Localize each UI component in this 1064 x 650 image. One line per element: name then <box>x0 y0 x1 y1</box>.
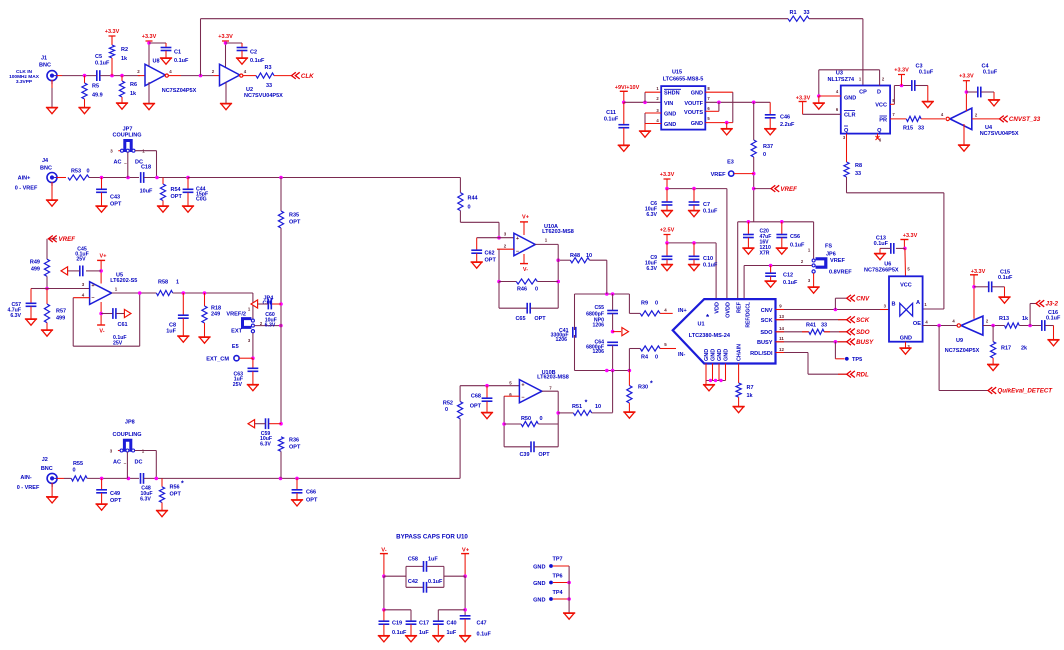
svg-text:C61: C61 <box>118 322 128 328</box>
svg-text:OPT: OPT <box>110 202 122 208</box>
ground at U15 pin5 <box>721 129 733 135</box>
svg-text:TP5: TP5 <box>852 357 862 363</box>
svg-text:GND: GND <box>691 121 703 127</box>
no-connect X at U3 Q <box>876 134 880 140</box>
svg-text:R36: R36 <box>289 437 299 443</box>
resistor R48 10 <box>570 253 592 263</box>
resistor R55 0 <box>64 461 87 481</box>
svg-text:OPT: OPT <box>470 404 482 410</box>
svg-text:OPT: OPT <box>289 444 301 450</box>
ground at C44 <box>182 206 194 212</box>
jumper JP8 COUPLING <box>110 420 157 479</box>
svg-text:C43: C43 <box>110 195 120 201</box>
svg-text:CNV: CNV <box>856 295 870 302</box>
svg-text:2.2uF: 2.2uF <box>780 122 795 128</box>
svg-text:C49: C49 <box>110 491 120 497</box>
svg-text:C62: C62 <box>485 251 495 257</box>
svg-text:6.3V: 6.3V <box>646 266 657 272</box>
ground at C8 <box>177 336 189 342</box>
svg-text:VREF: VREF <box>59 236 76 243</box>
resistor R7 1k <box>736 383 754 399</box>
svg-text:25V: 25V <box>233 382 243 388</box>
svg-text:VCC: VCC <box>875 103 887 109</box>
wire VIN rail <box>624 92 661 104</box>
svg-text:C56: C56 <box>790 234 800 240</box>
svg-text:C12: C12 <box>783 273 793 279</box>
svg-text:GND: GND <box>844 95 856 101</box>
svg-text:NC7SVU04P5X: NC7SVU04P5X <box>980 131 1019 137</box>
svg-text:U3: U3 <box>836 71 843 77</box>
svg-text:Q: Q <box>877 128 882 134</box>
svg-text:R7: R7 <box>747 385 754 391</box>
ground at C7 <box>688 211 700 217</box>
wire VREF cap rail <box>738 220 814 299</box>
inverter U8 NC7SZ04P5X <box>137 59 196 95</box>
svg-text:+2.5V: +2.5V <box>660 228 675 234</box>
svg-text:C10: C10 <box>703 256 713 262</box>
net label QuikEval_DETECT <box>988 387 1053 395</box>
svg-text:0: 0 <box>468 205 471 211</box>
svg-text:0: 0 <box>763 152 766 158</box>
svg-text:SCK: SCK <box>856 317 870 324</box>
wire network bottom rail <box>575 369 632 373</box>
resistor R49 499 <box>30 239 50 291</box>
svg-text:13: 13 <box>779 314 784 319</box>
svg-text:R51: R51 <box>572 404 582 410</box>
svg-text:REF/DGCL: REF/DGCL <box>746 302 752 328</box>
svg-text:AC: AC <box>113 460 121 466</box>
svg-text:249: 249 <box>211 312 220 318</box>
wire U10A -in <box>497 249 514 283</box>
svg-text:NC7SVU04P5X: NC7SVU04P5X <box>244 93 283 99</box>
svg-text:FS: FS <box>825 244 832 250</box>
wire CM rail middle <box>279 228 283 426</box>
svg-text:U8: U8 <box>152 59 159 65</box>
ground at C12 <box>765 281 777 287</box>
svg-text:OPT: OPT <box>171 194 183 200</box>
wire U1 GND pins <box>706 364 726 385</box>
turret E5 EXT_CM <box>206 344 253 363</box>
capacitor C44 15pF <box>183 178 209 207</box>
svg-text:1k: 1k <box>1022 316 1029 322</box>
svg-text:REF: REF <box>737 301 743 313</box>
svg-text:+3.3V: +3.3V <box>894 68 909 74</box>
svg-text:V+: V+ <box>100 254 107 260</box>
svg-text:R4: R4 <box>641 354 649 360</box>
wire U3 D feedback loop <box>817 70 880 98</box>
capacitor C66 OPT <box>292 478 318 503</box>
capacitor C4 0.1uF <box>966 64 997 100</box>
wire network top rail <box>575 292 630 296</box>
svg-text:R50: R50 <box>521 416 531 422</box>
svg-text:IN+: IN+ <box>678 308 687 314</box>
svg-text:−: − <box>521 395 524 401</box>
svg-text:+3.3V: +3.3V <box>105 29 120 35</box>
svg-text:C46: C46 <box>780 115 790 121</box>
svg-text:10: 10 <box>595 404 601 410</box>
svg-text:C42: C42 <box>408 579 418 585</box>
ground at R18 <box>198 337 210 343</box>
ground at C66 <box>291 500 303 506</box>
svg-text:C5: C5 <box>95 54 102 60</box>
wire R41 to SDO label <box>824 331 847 333</box>
svg-text:R49: R49 <box>30 260 40 266</box>
jumper JP4 CM <box>226 293 282 360</box>
capacitor C43 OPT <box>96 178 122 208</box>
svg-text:J4: J4 <box>42 158 49 164</box>
wire V- down <box>382 576 386 611</box>
ground at J4 <box>46 200 58 206</box>
svg-text:+9V/+10V: +9V/+10V <box>615 85 640 91</box>
capacitor C12 0.1uF <box>765 266 798 287</box>
capacitor C2 0.1uF <box>226 43 266 64</box>
svg-text:GND: GND <box>533 581 545 587</box>
svg-text:0.1uF: 0.1uF <box>95 61 110 67</box>
wire U3 VCC to +3.3V <box>890 84 912 105</box>
svg-text:+3.3V: +3.3V <box>142 34 157 40</box>
capacitor C5 0.1uF <box>95 54 110 81</box>
svg-text:+: + <box>91 283 94 289</box>
ground at C3 <box>922 102 934 108</box>
op-amp U10A LT6203-MS8 <box>504 224 574 256</box>
wire to R9 <box>629 294 640 313</box>
ground at C2 <box>236 58 248 64</box>
capacitor C64 6800pF <box>586 340 618 371</box>
wire U5 out <box>112 291 157 295</box>
svg-text:0.1uF: 0.1uF <box>983 70 998 76</box>
capacitor C10 0.1uF <box>689 243 718 269</box>
svg-text:VREF: VREF <box>830 258 846 264</box>
power +3.3V OVDD rail <box>660 172 727 299</box>
svg-text:C65: C65 <box>515 316 525 322</box>
svg-text:OE: OE <box>913 321 921 327</box>
ground at C15 <box>998 297 1010 303</box>
svg-text:C0G: C0G <box>196 197 207 203</box>
ground at C6 <box>661 211 673 217</box>
wire C48 out <box>144 477 188 481</box>
capacitor C16 0.1uF <box>1042 310 1061 340</box>
capacitor C49 OPT <box>96 478 122 504</box>
resistor R4 0 <box>640 346 660 360</box>
svg-text:−: − <box>91 296 94 302</box>
svg-text:V-: V- <box>523 267 528 273</box>
op-amp U5 LT6202-S5 <box>82 273 138 305</box>
ground arrow at C55/C64 midpoint <box>611 328 629 336</box>
net label RDL <box>847 371 869 379</box>
jumper JP7 COUPLING <box>110 127 156 178</box>
svg-text:VOUTS: VOUTS <box>684 110 703 116</box>
svg-text:JP8: JP8 <box>125 420 135 426</box>
svg-text:JP6: JP6 <box>826 252 836 258</box>
svg-text:OPT: OPT <box>306 498 318 504</box>
capacitor C8 1uF <box>166 293 188 336</box>
svg-text:C18: C18 <box>141 165 151 171</box>
wire to U5 +in <box>47 282 90 289</box>
svg-text:OPT: OPT <box>485 258 497 264</box>
svg-text:NC7SZ66P5X: NC7SZ66P5X <box>864 268 899 274</box>
capacitor C58 1uF <box>384 557 444 588</box>
wire R58 to JP4 <box>173 291 253 295</box>
wire test point bus <box>568 566 570 613</box>
resistor R37 0 <box>751 140 773 158</box>
wire bypass bottom ties <box>384 610 465 621</box>
wire VOUTF rail <box>705 101 770 105</box>
ground at JP6 pin3 <box>808 273 820 293</box>
svg-text:GND: GND <box>704 349 710 361</box>
svg-text:C19: C19 <box>392 621 402 627</box>
capacitor C59 10uF <box>255 418 281 447</box>
svg-text:SDO: SDO <box>760 330 773 336</box>
svg-text:LT6203-MS8: LT6203-MS8 <box>542 229 574 235</box>
test point TP7 <box>533 557 569 571</box>
svg-text:R52: R52 <box>443 401 453 407</box>
svg-text:C17: C17 <box>419 621 429 627</box>
capacitor C1 0.1uF <box>149 43 189 64</box>
svg-text:11: 11 <box>779 336 784 341</box>
wire CM rail lower <box>280 451 282 478</box>
svg-text:0: 0 <box>445 407 448 413</box>
svg-text:DC: DC <box>135 460 143 466</box>
ground at U3 GND pin <box>813 96 825 109</box>
ground at J2 <box>46 497 58 503</box>
svg-text:R54: R54 <box>171 187 182 193</box>
wire VOUTS tie <box>705 102 719 111</box>
inverter U4 NC7SVU04P5X (mirrored) <box>941 108 1019 137</box>
ADC U1 LTC2380-MS-24 <box>664 299 784 363</box>
svg-text:R2: R2 <box>121 47 128 53</box>
svg-text:0.1uF: 0.1uF <box>874 241 889 247</box>
svg-text:14: 14 <box>779 326 784 331</box>
resistor R17 2k <box>991 326 1029 365</box>
svg-text:Q: Q <box>844 128 849 134</box>
net label CLK <box>292 72 315 80</box>
svg-text:BNC: BNC <box>41 466 53 472</box>
capacitor C9 10uF <box>645 243 673 272</box>
svg-text:D: D <box>877 90 881 96</box>
wire J1 to C5 <box>62 74 96 78</box>
svg-text:U1: U1 <box>697 322 704 328</box>
resistor R57 499 <box>44 289 66 331</box>
wire R53 to C18 <box>89 176 139 180</box>
ground at R17 <box>987 364 999 370</box>
svg-text:33: 33 <box>803 10 809 16</box>
svg-text:TP6: TP6 <box>552 573 562 579</box>
svg-text:1206: 1206 <box>592 349 604 355</box>
wire U10B -in <box>502 396 519 447</box>
svg-text:0.1uF: 0.1uF <box>790 243 805 249</box>
svg-text:+3.3V: +3.3V <box>796 96 811 102</box>
svg-text:C1: C1 <box>174 50 181 56</box>
power +3.3V at U2 <box>218 34 233 68</box>
svg-text:*: * <box>650 381 653 388</box>
wire U3 Qbar to R8 <box>846 134 848 162</box>
wire R37 to VREF rail <box>752 157 756 222</box>
svg-text:VREF/2: VREF/2 <box>226 312 246 318</box>
svg-text:1uF: 1uF <box>166 329 176 335</box>
wire R44 to U10A +in <box>460 211 514 240</box>
svg-text:BUSY: BUSY <box>757 340 773 346</box>
net label VREF right <box>754 185 797 193</box>
net label VREF at R49 <box>48 236 75 244</box>
ground at R57 <box>41 330 53 336</box>
wire REFLPF rail C12 <box>744 264 812 299</box>
capacitor C65 OPT feedback <box>499 282 558 323</box>
capacitor C60 10uF <box>258 299 281 329</box>
svg-text:C66: C66 <box>306 490 316 496</box>
svg-text:~: ~ <box>124 461 127 466</box>
svg-text:B: B <box>892 302 896 308</box>
capacitor C18 10uF <box>140 165 153 195</box>
ground at C43 <box>95 206 107 212</box>
svg-text:C7: C7 <box>703 202 710 208</box>
svg-text:V+: V+ <box>522 215 529 221</box>
svg-text:QuikEval_DETECT: QuikEval_DETECT <box>997 388 1053 395</box>
svg-text:TP7: TP7 <box>552 557 562 563</box>
wire CLK node up to top rail <box>200 19 202 76</box>
ground at R5 <box>78 108 90 114</box>
ground arrow at C59 <box>248 420 255 428</box>
svg-text:OPT: OPT <box>110 498 122 504</box>
svg-text:NL17SZ74: NL17SZ74 <box>827 77 855 83</box>
wire U4 in from CNVST_33 <box>972 118 1000 120</box>
svg-text:R58: R58 <box>158 279 168 285</box>
svg-text:CLK: CLK <box>301 73 314 80</box>
wire U15 pin5 GND <box>705 121 733 129</box>
svg-text:V+: V+ <box>462 548 470 554</box>
svg-text:V-: V- <box>99 329 104 335</box>
ground at R30 <box>623 412 635 418</box>
svg-text:X7R: X7R <box>760 251 770 257</box>
svg-text:BNC: BNC <box>40 165 52 171</box>
wire AIN- up to R52 <box>459 419 461 479</box>
wire U3 PR to R15 <box>890 118 906 120</box>
jumper JP6 FS <box>801 244 852 284</box>
capacitor C46 2.2uF <box>765 102 795 128</box>
svg-text:0.1uF: 0.1uF <box>703 209 718 215</box>
ground at R6 <box>116 103 128 109</box>
svg-text:0.1uF: 0.1uF <box>250 58 265 64</box>
svg-text:U15: U15 <box>672 70 682 76</box>
svg-text:COUPLING: COUPLING <box>112 432 141 438</box>
resistor R46 0 feedback <box>499 279 558 292</box>
svg-text:0.1uF: 0.1uF <box>703 263 718 269</box>
ground at C63 <box>247 385 259 391</box>
wire R55 to C48 <box>87 477 139 481</box>
ground at C56 <box>776 248 788 254</box>
svg-text:VIN: VIN <box>664 101 673 107</box>
svg-text:25V: 25V <box>113 341 123 347</box>
svg-text:BYPASS CAPS FOR U10: BYPASS CAPS FOR U10 <box>396 534 468 541</box>
svg-text:AC: AC <box>114 160 122 166</box>
svg-text:+3.3V: +3.3V <box>903 233 918 239</box>
svg-text:0: 0 <box>655 354 658 360</box>
svg-text:GND: GND <box>533 598 545 604</box>
wire U1 IN- pin <box>660 348 676 350</box>
capacitor C61 0.1uF 25V <box>101 308 127 346</box>
svg-text:RDL/SDI: RDL/SDI <box>750 351 773 357</box>
capacitor C3 0.1uF <box>912 64 934 102</box>
svg-text:NC7SZ04P5X: NC7SZ04P5X <box>945 348 980 354</box>
wire AIN+ main line <box>188 176 460 180</box>
IC U3 NL17SZ74 <box>827 71 895 143</box>
power +3.3V at U9 <box>970 269 986 319</box>
wire CNV from U1 to U6 B <box>776 308 890 312</box>
svg-text:R8: R8 <box>855 163 862 169</box>
net label CNVST_33 <box>1000 116 1041 124</box>
resistor R52 0 <box>443 401 463 419</box>
svg-text:C55: C55 <box>594 305 604 311</box>
ground at C1 <box>160 58 172 64</box>
wire to R4 <box>629 349 640 371</box>
ground at C20 <box>742 248 754 254</box>
inverter U2 NC7SVU04P5X <box>212 64 283 99</box>
svg-text:6.3V: 6.3V <box>265 323 276 329</box>
ground at C4 <box>988 100 1000 106</box>
svg-text:C11: C11 <box>606 110 616 116</box>
ground at C17 <box>405 636 417 642</box>
svg-text:1uF: 1uF <box>428 557 438 563</box>
wire VOUTF down to R37 <box>753 102 755 140</box>
power +9V/+10V <box>615 85 640 104</box>
svg-text:3.3VPP: 3.3VPP <box>16 79 33 85</box>
svg-text:+: + <box>516 236 519 242</box>
svg-text:0.8VREF: 0.8VREF <box>829 269 852 275</box>
net label CNV <box>835 295 870 310</box>
ground at C68 <box>481 413 493 419</box>
ground at U8 <box>143 82 155 110</box>
ground at J1 <box>46 108 58 114</box>
title bypass caps <box>396 534 468 541</box>
capacitor C45 0.1uF 25V <box>68 247 101 277</box>
connector J4 BNC AIN+ <box>15 158 66 200</box>
svg-text:0.1uF: 0.1uF <box>783 280 798 286</box>
ground at C13 <box>874 254 886 260</box>
wire C5 to U8 input <box>100 74 140 78</box>
ground arrow at C45 <box>61 267 68 275</box>
ground at C40 <box>432 636 444 642</box>
wire U6 OE to U9 <box>923 324 957 328</box>
svg-text:6.3V: 6.3V <box>646 212 657 218</box>
svg-text:BUSY: BUSY <box>856 339 874 346</box>
resistor R54 OPT <box>160 178 182 207</box>
svg-text:CP: CP <box>859 90 867 96</box>
svg-text:C68: C68 <box>471 394 481 400</box>
resistor R51 10 <box>558 400 612 416</box>
ground at U1 GND <box>703 385 715 391</box>
svg-text:0: 0 <box>539 416 542 422</box>
capacitor C39 OPT feedback <box>504 441 558 457</box>
svg-text:~: ~ <box>124 161 127 166</box>
net label BUSY <box>847 339 874 347</box>
svg-text:1: 1 <box>176 279 179 285</box>
svg-text:R9: R9 <box>641 301 648 307</box>
resistor R18 249 <box>202 293 221 337</box>
test point TP5 <box>835 342 862 363</box>
wire R48 to network <box>556 258 570 262</box>
svg-text:R13: R13 <box>999 316 1009 322</box>
svg-text:0.1uF: 0.1uF <box>477 632 492 638</box>
capacitor C47 0.1uF <box>460 616 492 638</box>
power +3.3V at U8 <box>142 34 157 68</box>
svg-text:VCC: VCC <box>900 283 912 289</box>
svg-text:EXT: EXT <box>231 329 242 335</box>
svg-text:V-: V- <box>381 548 387 554</box>
svg-text:J1: J1 <box>41 56 47 62</box>
wire CM rail upper <box>280 178 282 212</box>
svg-text:GND: GND <box>711 349 717 361</box>
svg-text:33: 33 <box>266 83 272 89</box>
power +2.5V VDD rail <box>660 228 716 300</box>
